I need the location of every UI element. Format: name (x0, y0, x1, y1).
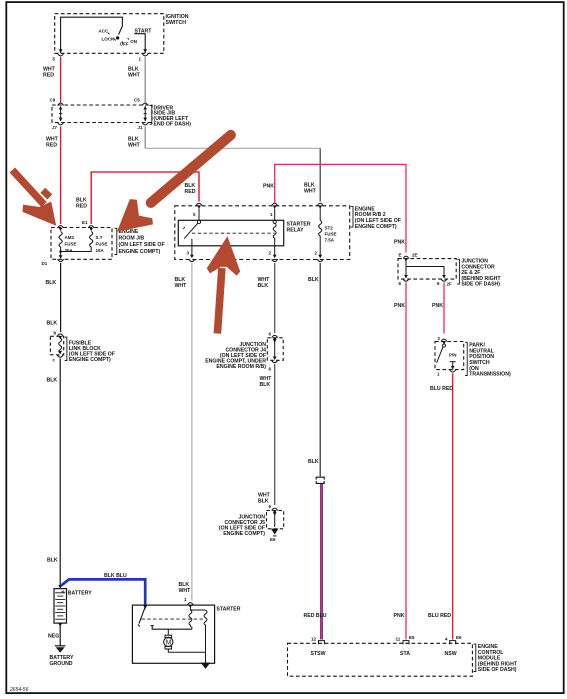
pin 3 starter relay (187, 246, 195, 262)
svg-text:4: 4 (445, 637, 448, 642)
svg-text:PNK: PNK (394, 240, 405, 246)
pin E junction connector 2E (399, 253, 418, 262)
svg-text:2: 2 (438, 336, 441, 341)
svg-text:BLK: BLK (308, 277, 319, 283)
svg-text:WHT: WHT (128, 143, 141, 149)
pin 6 junction connector J4 top (269, 332, 278, 341)
fusible link block box (50, 336, 115, 363)
svg-text:C5: C5 (134, 98, 140, 103)
wire BLU-RED park/neutral switch to ECM NSW (428, 373, 453, 639)
svg-text:12: 12 (311, 637, 317, 642)
svg-text:RELAY: RELAY (287, 227, 305, 233)
svg-text:WHT: WHT (304, 189, 317, 195)
pin E1 engine room J/B (82, 220, 94, 231)
pin 6/2F junction connector bottom right (437, 279, 452, 287)
svg-text:AM2: AM2 (65, 235, 75, 240)
pin J7 driver J/B (52, 123, 64, 130)
driver J/B internal pass-through right (143, 106, 147, 121)
svg-text:1: 1 (184, 597, 187, 602)
svg-text:SIDE OF DASH): SIDE OF DASH) (461, 282, 500, 288)
svg-text:RED BLU: RED BLU (304, 613, 327, 619)
pin 2 ST2 fuse bottom (315, 251, 324, 262)
svg-text:7.5A: 7.5A (325, 238, 335, 243)
svg-text:2654-56: 2654-56 (9, 687, 29, 693)
pin 1 starter relay (270, 203, 278, 220)
junction connector internal wiring (404, 260, 446, 279)
junction connector J5 box (219, 511, 284, 538)
svg-text:ENGINE COMPT): ENGINE COMPT) (223, 531, 265, 537)
starter relay U1 (178, 220, 311, 246)
svg-text:E6: E6 (456, 635, 462, 640)
svg-text:RED: RED (43, 72, 54, 78)
svg-text:ENGINE COMPT): ENGINE COMPT) (119, 249, 161, 255)
svg-text:2E: 2E (412, 253, 418, 258)
svg-text:BLK: BLK (258, 283, 269, 289)
svg-text:1: 1 (437, 372, 440, 377)
svg-text:STARTER: STARTER (216, 607, 240, 613)
svg-text:GROUND: GROUND (50, 661, 73, 667)
wire PNK junction connector to ECM STA (394, 283, 407, 640)
svg-text:BLU RED: BLU RED (428, 613, 451, 619)
wire PNK starter relay to junction connector 2E (263, 164, 406, 252)
svg-text:SIDE OF DASH): SIDE OF DASH) (478, 667, 517, 673)
svg-text:BLK: BLK (260, 382, 271, 388)
park/neutral position switch (435, 342, 511, 378)
svg-text:NSW: NSW (445, 651, 457, 657)
ignition switch START contact line (134, 34, 145, 54)
starter relay contact arm (183, 220, 200, 246)
svg-text:1: 1 (270, 212, 273, 217)
junction connector J4 internal wire (273, 339, 277, 360)
svg-text:1: 1 (139, 57, 142, 62)
svg-text:ROOM J/B: ROOM J/B (119, 236, 145, 242)
svg-text:OFF: OFF (120, 41, 129, 46)
svg-text:FUSE: FUSE (65, 241, 77, 246)
pin 1 ignition switch (139, 49, 149, 61)
svg-text:TRANSMISSION): TRANSMISSION) (469, 372, 511, 378)
svg-text:2: 2 (315, 251, 318, 256)
starter motor M1 (164, 629, 206, 652)
fuse ST 15A (59, 232, 107, 254)
svg-text:RED: RED (76, 204, 87, 210)
fuse AM2 30A (59, 232, 77, 257)
wire NEG battery to ground (48, 623, 62, 645)
svg-text:WHT: WHT (175, 283, 188, 289)
svg-text:BLK: BLK (47, 320, 58, 326)
pin C9 driver J/B (50, 98, 64, 106)
red annotation arrow C shaft (217, 268, 222, 334)
svg-text:J1: J1 (138, 125, 144, 130)
svg-text:E1: E1 (82, 220, 88, 225)
svg-text:END OF DASH): END OF DASH) (154, 121, 192, 127)
svg-text:6: 6 (269, 332, 272, 337)
fuse ST2 7.5A (319, 221, 337, 256)
starter solenoid linkage (142, 618, 206, 620)
driver J/B internal pass-through left (59, 106, 63, 121)
pin 5 starter relay (193, 203, 202, 220)
pin D1 engine room J/B bottom (42, 255, 64, 266)
wire RED-BLU connector to ECM STSW (304, 484, 327, 640)
wire WHT-BLK junction connector J4 to J5 (258, 364, 275, 505)
svg-text:BLK: BLK (76, 197, 87, 203)
ignition switch (55, 14, 189, 54)
svg-text:+: + (61, 589, 65, 596)
wire PNK junction connector to park/neutral switch (432, 283, 444, 334)
svg-text:BLK: BLK (46, 280, 57, 286)
driver side J/B connector box (52, 105, 191, 127)
engine room R/B 2 box (175, 206, 401, 260)
svg-text:ON: ON (130, 39, 137, 44)
svg-text:BLK: BLK (47, 558, 58, 564)
svg-text:NEG: NEG (48, 633, 59, 639)
starter ground (201, 652, 211, 669)
svg-text:J7: J7 (52, 125, 58, 130)
pin 5 ignition switch (53, 49, 64, 61)
battery (54, 585, 92, 623)
svg-text:E: E (399, 253, 402, 258)
svg-text:BATTERY: BATTERY (68, 591, 92, 597)
svg-text:E6: E6 (270, 537, 276, 542)
pin ST2 fuse top (317, 203, 323, 220)
svg-text:6: 6 (269, 367, 272, 372)
svg-text:BLK: BLK (308, 459, 319, 465)
pin J1 driver J/B (138, 123, 149, 130)
pin starter BLK-WHT terminal (184, 597, 193, 608)
svg-text:ST2: ST2 (325, 226, 334, 231)
junction connector J4 box (205, 338, 283, 370)
svg-text:5: 5 (53, 57, 56, 62)
pin 6 junction connector J4 bottom (269, 360, 278, 371)
svg-text:6: 6 (269, 504, 272, 509)
pin C5 driver J/B (134, 98, 148, 106)
pin engine room J/B top-left (58, 226, 64, 232)
junction connector 2E/2F box (398, 259, 501, 288)
svg-text:STSW: STSW (311, 651, 326, 657)
svg-text:M: M (166, 640, 172, 647)
starter pull-in winding (189, 608, 192, 630)
svg-text:E5: E5 (409, 635, 415, 640)
svg-text:6: 6 (437, 281, 440, 286)
svg-text:ACC: ACC (99, 28, 109, 33)
svg-text:D1: D1 (42, 261, 48, 266)
pin 2 starter relay (269, 246, 278, 262)
pin fusible link bottom (53, 351, 64, 363)
svg-text:PNK: PNK (394, 303, 405, 309)
svg-text:RED: RED (46, 143, 57, 149)
red annotation arrow B shaft (151, 135, 231, 203)
svg-text:C9: C9 (50, 98, 56, 103)
wire BLK-WHT driver J/B to ST fuse (128, 126, 320, 201)
svg-text:WHT: WHT (128, 72, 141, 78)
svg-text:c: c (53, 358, 56, 363)
pin 6 junction connector J5 (269, 504, 278, 513)
wire WHT-BLK starter relay to junction connector J4 (258, 263, 275, 333)
svg-text:15A: 15A (96, 248, 105, 253)
svg-text:BLU RED: BLU RED (430, 386, 453, 392)
wire BLK ST2 fuse to connector (308, 263, 320, 477)
svg-text:P/N: P/N (449, 353, 457, 358)
svg-text:ENGINE COMPT): ENGINE COMPT) (69, 357, 111, 363)
svg-text:RED: RED (185, 189, 196, 195)
svg-text:PNK: PNK (263, 184, 274, 190)
pin 2 park/neutral switch (438, 336, 448, 345)
red annotation arrow B head (117, 199, 153, 232)
cable BLK-BLU battery to starter (61, 573, 145, 604)
pin 11/E5 ECM STA (396, 635, 416, 657)
svg-text:STA: STA (400, 651, 410, 657)
svg-text:S.T: S.T (96, 235, 103, 240)
park/neutral switch contact (437, 344, 457, 370)
starter solenoid contact switch (138, 605, 192, 629)
svg-text:ENGINE ROOM R/B): ENGINE ROOM R/B) (216, 364, 266, 370)
svg-text:FUSE: FUSE (96, 241, 108, 246)
pin 1 park/neutral switch bottom (437, 366, 456, 377)
svg-text:SWITCH: SWITCH (166, 20, 187, 26)
red annotation arrow A head (23, 202, 57, 226)
wire BLK-WHT ignition switch to driver J/B (128, 57, 145, 103)
red annotation arrow C head (207, 236, 240, 275)
wire BLK engine room J/B to fusible link block (46, 263, 61, 332)
red annotation arrow A shaft (12, 170, 44, 205)
svg-text:PNK: PNK (432, 303, 443, 309)
wire BLK fusible link to battery (47, 359, 61, 587)
battery ground (50, 646, 74, 667)
svg-text:FUSE: FUSE (325, 232, 337, 237)
svg-text:2: 2 (269, 251, 272, 256)
pin fusible link top (54, 331, 64, 340)
engine room J/B box (51, 228, 165, 260)
svg-text:3: 3 (187, 251, 190, 256)
svg-text:PNK: PNK (394, 613, 405, 619)
pin 12 ECM STSW (311, 637, 326, 657)
red annotation arrow A barb stub (43, 190, 50, 197)
fusible link MAIN (59, 338, 62, 353)
svg-text:LOCK: LOCK (102, 37, 115, 42)
engine control module box (288, 643, 518, 676)
svg-text:ENGINE COMPT): ENGINE COMPT) (355, 224, 397, 230)
wire WHT-RED ignition switch to driver J/B (43, 57, 61, 103)
pin 4/E6 ECM NSW (445, 635, 463, 657)
svg-text:(ON LEFT SIDE OF: (ON LEFT SIDE OF (119, 242, 165, 248)
svg-text:BLK: BLK (258, 498, 269, 504)
starter assembly box (132, 605, 240, 663)
svg-text:11: 11 (396, 637, 401, 642)
svg-text:BLK: BLK (47, 377, 58, 383)
svg-text:WHT: WHT (179, 588, 192, 594)
starter hold-in winding (190, 610, 207, 652)
svg-text:5: 5 (193, 212, 196, 217)
svg-text:b: b (54, 331, 57, 336)
ignition switch positions ACC/LOCK/OFF/ON/START (99, 28, 153, 46)
ground E6 via junction connector J5 (270, 512, 279, 542)
svg-text:30A: 30A (65, 248, 74, 253)
wire BLK-WHT starter relay to starter (175, 263, 192, 601)
wire WHT-RED driver J/B to engine room J/B (46, 126, 61, 224)
svg-text:6: 6 (399, 281, 402, 286)
starter relay coil (273, 220, 276, 246)
svg-text:BLK BLU: BLK BLU (104, 573, 127, 579)
wire BLK-RED ST fuse to starter relay (76, 172, 199, 224)
pin 6 junction connector bottom left (399, 279, 410, 286)
svg-text:2F: 2F (447, 282, 453, 287)
inline connector (316, 477, 324, 483)
